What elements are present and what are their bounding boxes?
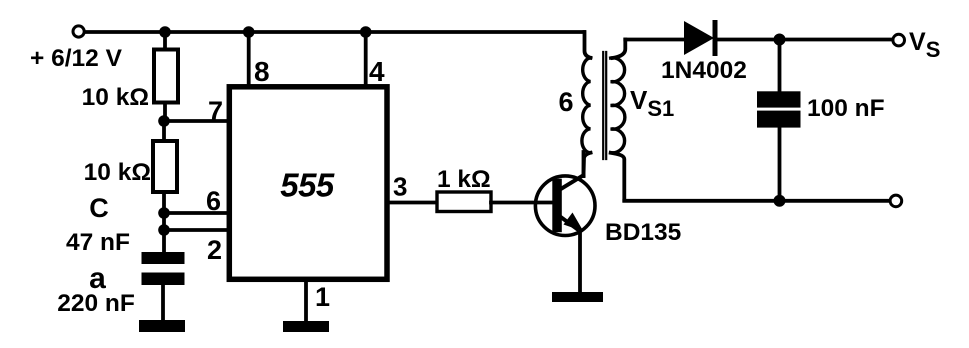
svg-text:2: 2: [207, 235, 222, 265]
svg-text:4: 4: [369, 56, 385, 87]
svg-text:C: C: [89, 193, 109, 223]
svg-text:1N4002: 1N4002: [661, 57, 747, 84]
svg-text:100 nF: 100 nF: [807, 95, 885, 122]
svg-text:6: 6: [206, 186, 221, 216]
svg-text:+ 6/12 V: + 6/12 V: [30, 45, 123, 72]
svg-text:47 nF: 47 nF: [66, 229, 130, 256]
svg-text:1 kΩ: 1 kΩ: [437, 166, 491, 193]
svg-text:6: 6: [558, 87, 573, 117]
svg-text:555: 555: [280, 167, 335, 204]
svg-text:10 kΩ: 10 kΩ: [84, 159, 151, 186]
svg-text:3: 3: [393, 172, 407, 202]
svg-text:1: 1: [315, 282, 330, 312]
svg-text:BD135: BD135: [605, 219, 681, 246]
svg-text:7: 7: [208, 96, 223, 126]
svg-text:8: 8: [254, 56, 270, 87]
svg-text:10 kΩ: 10 kΩ: [82, 84, 149, 111]
svg-text:220 nF: 220 nF: [57, 290, 135, 317]
